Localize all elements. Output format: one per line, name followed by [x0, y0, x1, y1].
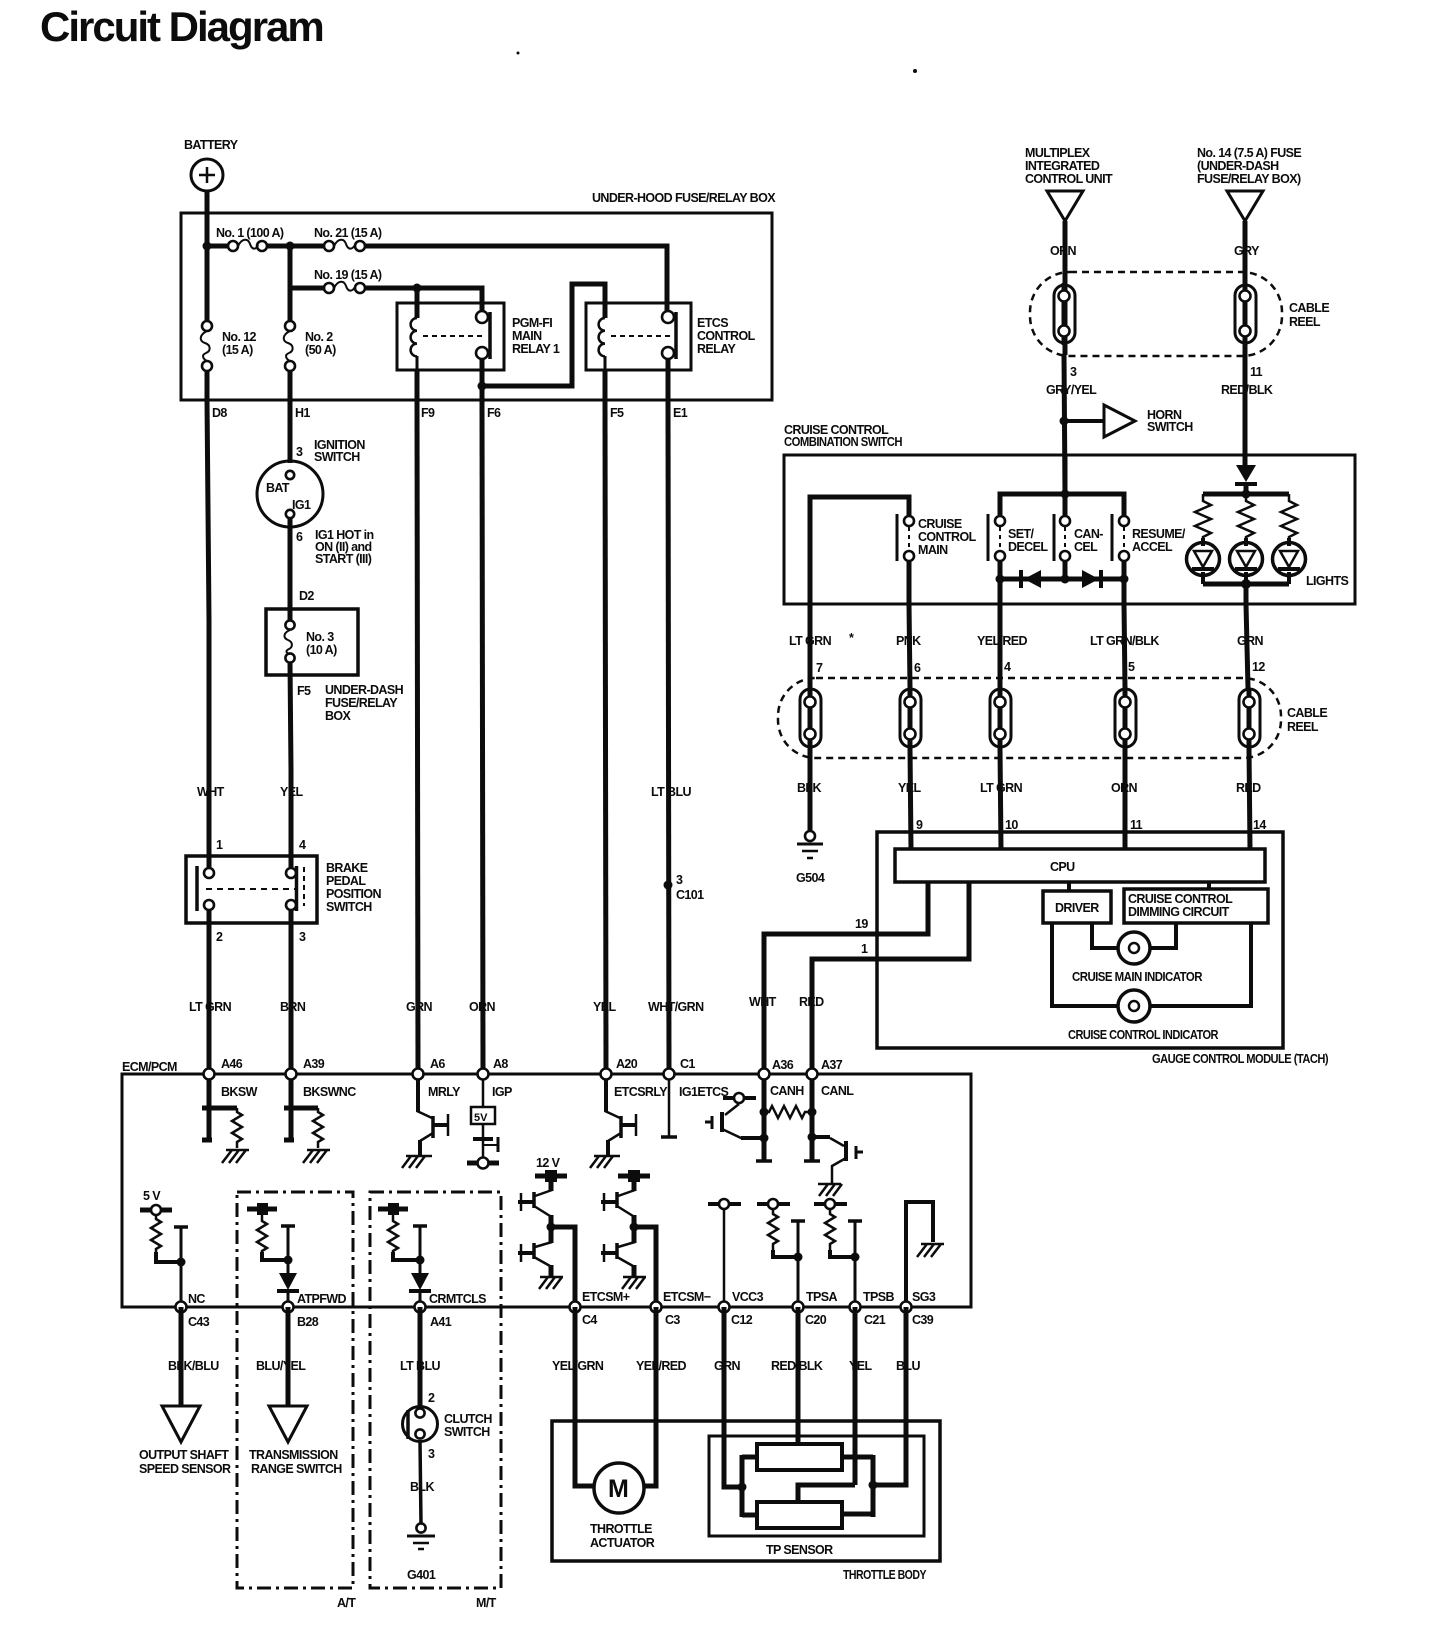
wire ORN seg: [1123, 748, 1128, 849]
lamp cruise control indicator: [1068, 990, 1219, 1042]
TP sensor element lower: [757, 1502, 842, 1528]
wire horn tap: [1064, 419, 1104, 423]
junction ATPFWD: [284, 1256, 293, 1265]
svg-text:C39: C39: [912, 1313, 934, 1327]
svg-text:CEL: CEL: [1074, 540, 1098, 554]
wire BLU: [873, 1307, 906, 1485]
svg-text:19: 19: [855, 917, 868, 931]
driver box: [1043, 891, 1111, 923]
driver pair ETCSM+: [518, 1178, 563, 1289]
ground BKSWNC: [303, 1150, 330, 1163]
fuse No.3 (10 A) under-dash: [266, 609, 358, 675]
junction bus left: [996, 575, 1005, 584]
VCC3 terminal: [708, 1199, 741, 1307]
svg-text:BOX: BOX: [325, 709, 352, 723]
svg-text:12 V: 12 V: [536, 1156, 561, 1170]
wire E1 contact out: [666, 358, 671, 400]
junction TPSA: [794, 1253, 803, 1262]
junction F6/ETCS feed: [478, 382, 487, 391]
svg-text:C1: C1: [680, 1057, 695, 1071]
transistor Q-ETCSRLY: [590, 1079, 637, 1168]
BKSWNC stub: [284, 1106, 318, 1111]
svg-text:CONTROL UNIT: CONTROL UNIT: [1025, 172, 1113, 186]
BOTTOM-SECTION: [139, 1307, 940, 1582]
ground G401: [407, 1523, 436, 1582]
reel connector left: [1054, 283, 1075, 345]
svg-text:FUSE/RELAY: FUSE/RELAY: [325, 696, 398, 710]
svg-text:GRY/YEL: GRY/YEL: [1046, 383, 1097, 397]
junction TPSB: [851, 1253, 860, 1262]
svg-text:Circuit Diagram: Circuit Diagram: [40, 3, 323, 50]
connector arrow multiplex: [1047, 191, 1083, 221]
svg-text:No. 1 (100 A): No. 1 (100 A): [216, 226, 284, 240]
svg-text:SET/: SET/: [1008, 527, 1035, 541]
cruise control combination switch box: [784, 455, 1355, 604]
TPSB sense line: [848, 1221, 862, 1307]
wire battery to bus: [205, 191, 210, 246]
svg-text:BAT: BAT: [266, 481, 290, 495]
resistor lamp mid: [1238, 494, 1254, 540]
svg-text:MRLY: MRLY: [428, 1085, 461, 1099]
svg-text:A/T: A/T: [337, 1596, 356, 1610]
wire LT BLU: [418, 1307, 423, 1408]
svg-text:YEL: YEL: [280, 785, 303, 799]
diode D2 (to resume): [1082, 570, 1101, 588]
stray speck: [913, 69, 917, 73]
TPSA terminal: [757, 1199, 790, 1209]
svg-text:CABLE: CABLE: [1287, 706, 1327, 720]
reel oval pin12: [1239, 689, 1260, 747]
svg-text:No. 14 (7.5 A) FUSE: No. 14 (7.5 A) FUSE: [1197, 146, 1301, 160]
svg-text:12: 12: [1252, 660, 1265, 674]
svg-text:NC: NC: [188, 1292, 205, 1306]
svg-text:PNK: PNK: [896, 634, 921, 648]
svg-text:BLU/YEL: BLU/YEL: [256, 1359, 306, 1373]
svg-text:SWITCH: SWITCH: [444, 1425, 490, 1439]
svg-text:IG1: IG1: [292, 498, 311, 512]
svg-text:POSITION: POSITION: [326, 887, 382, 901]
label multiplex integrated control unit: [1025, 146, 1113, 186]
reel oval pin6: [900, 689, 921, 747]
svg-text:DRIVER: DRIVER: [1055, 901, 1099, 915]
BKSWNC pulldown: wire: [284, 1079, 294, 1140]
svg-text:THROTTLE BODY: THROTTLE BODY: [843, 1568, 927, 1582]
svg-text:D2: D2: [299, 589, 314, 603]
svg-text:M: M: [608, 1475, 629, 1503]
svg-text:LT GRN/BLK: LT GRN/BLK: [1090, 634, 1159, 648]
junction CRMTCLS: [416, 1256, 425, 1265]
TPSA sense line: [791, 1221, 805, 1307]
svg-text:F5: F5: [297, 684, 311, 698]
TP right bus: [842, 1455, 873, 1517]
wire col3 GRN run: [417, 400, 418, 1074]
node C101: [664, 873, 705, 902]
svg-text:ATPFWD: ATPFWD: [297, 1292, 347, 1306]
diode D3 lights feed: [1235, 465, 1257, 484]
wire col2 to ignition: [288, 400, 293, 463]
svg-text:3: 3: [428, 1447, 435, 1461]
svg-text:UNDER-DASH: UNDER-DASH: [325, 683, 404, 697]
wire YEL/RED out: [998, 579, 1003, 604]
wire col2 in box: [288, 288, 293, 400]
wire diode bus: [1000, 561, 1124, 579]
wire control indicator to dimming: [1150, 923, 1251, 1006]
NC line: [174, 1227, 188, 1307]
lamp cruise main indicator: [1072, 932, 1203, 984]
svg-text:(UNDER-DASH: (UNDER-DASH: [1197, 159, 1279, 173]
wire TPSA join: [773, 1250, 798, 1257]
svg-text:C12: C12: [731, 1313, 753, 1327]
svg-text:PEDAL: PEDAL: [326, 874, 366, 888]
resistor R-BKSWNC: [313, 1108, 323, 1148]
connector C4: [570, 1290, 630, 1327]
svg-text:SWITCH: SWITCH: [326, 900, 372, 914]
wire pin19 WHT: [764, 882, 928, 1074]
junction bus right: [1120, 575, 1129, 584]
CRMTCLS 5V bar: [378, 1203, 408, 1215]
connector arrow output shaft speed sensor: [139, 1406, 231, 1476]
SG3 ground run: [906, 1202, 944, 1307]
resistor R-TPSA: [768, 1209, 778, 1250]
svg-text:M/T: M/T: [476, 1596, 497, 1610]
wire main indicator to dimming: [1150, 923, 1176, 948]
svg-text:LT BLU: LT BLU: [651, 785, 691, 799]
junction col2 bus: [286, 242, 295, 251]
wire YEL/RED seg: [998, 604, 1003, 688]
svg-text:TPSB: TPSB: [863, 1290, 895, 1304]
svg-text:YEL: YEL: [898, 781, 921, 795]
svg-text:SWITCH: SWITCH: [314, 450, 360, 464]
label cruise control combination switch: [784, 423, 903, 449]
svg-text:BLK/BLU: BLK/BLU: [168, 1359, 219, 1373]
supply bar ETCSM-: [618, 1170, 650, 1182]
svg-text:MULTIPLEX: MULTIPLEX: [1025, 146, 1091, 160]
svg-text:IGP: IGP: [492, 1085, 512, 1099]
svg-text:BLK: BLK: [797, 781, 821, 795]
svg-text:4: 4: [1004, 660, 1011, 674]
svg-text:PGM-FI: PGM-FI: [512, 316, 552, 330]
svg-text:A46: A46: [221, 1057, 243, 1071]
ground G504: [796, 831, 825, 885]
label No.14 fuse: [1197, 146, 1301, 186]
lamp left: [1187, 538, 1220, 584]
svg-text:CONTROL: CONTROL: [918, 530, 977, 544]
svg-text:TRANSMISSION: TRANSMISSION: [249, 1448, 338, 1462]
junction bus mid: [1061, 575, 1070, 584]
svg-text:ETCSM+: ETCSM+: [582, 1290, 630, 1304]
svg-text:5: 5: [1128, 660, 1135, 674]
svg-text:BKSW: BKSW: [221, 1085, 258, 1099]
svg-text:10: 10: [1005, 818, 1018, 832]
junction CANH/driver: [760, 1134, 769, 1143]
svg-text:RED/BLK: RED/BLK: [771, 1359, 823, 1373]
wire LT GRN/BLK out: [1122, 579, 1127, 604]
svg-text:LIGHTS: LIGHTS: [1306, 574, 1348, 588]
svg-text:7: 7: [816, 661, 823, 675]
junction GRN/left bar: [738, 1483, 747, 1492]
svg-text:VCC3: VCC3: [732, 1290, 764, 1304]
svg-text:No. 2: No. 2: [305, 330, 333, 344]
wire CPU to dimming: [1207, 882, 1211, 889]
TP sensor element upper: [757, 1444, 842, 1470]
svg-text:REEL: REEL: [1287, 720, 1319, 734]
TP left bus: [742, 1455, 757, 1517]
ignition switch SW1: [257, 438, 374, 566]
svg-text:3: 3: [296, 445, 303, 459]
connector A46: [204, 1057, 258, 1099]
connector C43: [176, 1292, 210, 1329]
svg-text:A6: A6: [430, 1057, 445, 1071]
svg-text:GRN: GRN: [406, 1000, 433, 1014]
brake pedal position switch SW2: [186, 838, 382, 944]
junction horn tap: [1060, 417, 1069, 426]
svg-text:F5: F5: [610, 406, 624, 420]
svg-text:BKSWNC: BKSWNC: [303, 1085, 356, 1099]
wire col1 WHT run: [207, 400, 209, 1074]
svg-text:BLK: BLK: [410, 1480, 434, 1494]
wire ORN: [1063, 221, 1068, 282]
wire GRY: [1243, 221, 1248, 282]
svg-text:LT GRN: LT GRN: [980, 781, 1023, 795]
svg-text:ORN: ORN: [469, 1000, 496, 1014]
wire RED/BLK: [796, 1307, 801, 1446]
svg-text:B28: B28: [297, 1315, 319, 1329]
svg-text:F6: F6: [487, 406, 501, 420]
svg-text:DIMMING CIRCUIT: DIMMING CIRCUIT: [1128, 905, 1230, 919]
BKSW pulldown: wire: [202, 1079, 212, 1140]
wire TPSB join: [830, 1250, 855, 1257]
ATPFWD 5V bar: [247, 1203, 277, 1215]
svg-text:CPU: CPU: [1050, 860, 1075, 874]
svg-text:(10 A): (10 A): [306, 643, 337, 657]
supply bar ETCSM+: [535, 1170, 567, 1182]
svg-text:UNDER-HOOD FUSE/RELAY BOX: UNDER-HOOD FUSE/RELAY BOX: [592, 191, 776, 205]
wire LT GRN seg: [808, 604, 813, 688]
svg-text:THROTTLE: THROTTLE: [590, 1522, 652, 1536]
wire F6 to ETCS coil: [482, 284, 605, 386]
junction ETCSM+: [547, 1223, 556, 1232]
svg-text:No. 19 (15 A): No. 19 (15 A): [314, 268, 382, 282]
svg-text:E1: E1: [673, 406, 688, 420]
diode D-ATPFWD: [277, 1226, 299, 1307]
lamp right: [1273, 538, 1306, 584]
motor M throttle actuator: [590, 1463, 655, 1550]
wire cruise main feed run: [810, 497, 909, 604]
wire CANH: [762, 1079, 767, 1160]
svg-text:RANGE SWITCH: RANGE SWITCH: [251, 1462, 342, 1476]
svg-text:A36: A36: [772, 1058, 794, 1072]
wire col6 WHT/GRN run: [668, 400, 669, 1074]
svg-text:BATTERY: BATTERY: [184, 138, 239, 152]
svg-text:3: 3: [299, 930, 306, 944]
fuse No.12 (15 A): [201, 321, 257, 371]
svg-text:ETCSM−: ETCSM−: [663, 1290, 711, 1304]
wire ORN through reel: [1063, 282, 1068, 355]
svg-text:MAIN: MAIN: [512, 329, 542, 343]
wire BLK clutch: [420, 1441, 421, 1524]
svg-text:COMBINATION SWITCH: COMBINATION SWITCH: [784, 435, 903, 449]
A/T dash-dot box: [237, 1192, 353, 1588]
wire feed run: [1000, 494, 1124, 516]
ground BKSW: [222, 1150, 249, 1163]
relay U2 ETCS control relay: [586, 303, 756, 370]
wire col2 YEL run: [290, 662, 291, 1074]
switch can-cel: [1054, 514, 1103, 561]
svg-text:9: 9: [916, 818, 923, 832]
wire YEL/RED: [644, 1307, 656, 1486]
connector A39: [286, 1057, 357, 1099]
svg-text:CRUISE CONTROL: CRUISE CONTROL: [1128, 892, 1233, 906]
svg-text:START (III): START (III): [315, 552, 372, 566]
switch set/decel: [988, 514, 1048, 561]
svg-text:YEL/RED: YEL/RED: [977, 634, 1028, 648]
battery B1: [184, 138, 239, 191]
svg-text:H1: H1: [295, 406, 310, 420]
wire driver to control indicator: [1052, 923, 1118, 1006]
svg-text:TP SENSOR: TP SENSOR: [766, 1543, 833, 1557]
svg-text:No. 12: No. 12: [222, 330, 257, 344]
wire GRN: [724, 1307, 742, 1487]
wire YEL seg: [910, 748, 911, 849]
svg-text:3: 3: [676, 873, 683, 887]
ECM-SECTION: [122, 1057, 971, 1610]
svg-text:OUTPUT SHAFT: OUTPUT SHAFT: [139, 1448, 229, 1462]
junction CANL/driver: [808, 1133, 817, 1142]
horn switch arrow: [1104, 405, 1193, 437]
svg-text:CANH: CANH: [770, 1084, 804, 1098]
connector arrow No.14 fuse: [1227, 191, 1263, 221]
svg-text:CRMTCLS: CRMTCLS: [429, 1292, 486, 1306]
wire YEL wiper: [798, 1307, 855, 1504]
svg-text:G504: G504: [796, 871, 825, 885]
resistor lamp left: [1195, 494, 1211, 540]
connector C39: [901, 1290, 936, 1327]
junction lights feed: [1242, 490, 1251, 499]
wire No.19 row: [290, 246, 482, 312]
junction BLU/right bar: [869, 1481, 878, 1490]
svg-text:ORN: ORN: [1111, 781, 1138, 795]
fuse No.2 (50 A): [284, 321, 336, 371]
cruise control dimming circuit box: [1124, 889, 1268, 923]
svg-text:LT GRN: LT GRN: [789, 634, 832, 648]
regulator IGP 5V: [467, 1079, 499, 1169]
wire ATPFWD join: [262, 1252, 288, 1260]
svg-text:CRUISE CONTROL INDICATOR: CRUISE CONTROL INDICATOR: [1068, 1028, 1219, 1042]
svg-text:CRUISE: CRUISE: [918, 517, 962, 531]
svg-text:CRUISE MAIN INDICATOR: CRUISE MAIN INDICATOR: [1072, 970, 1203, 984]
wire YEL/GRN: [575, 1307, 595, 1486]
svg-text:WHT/GRN: WHT/GRN: [648, 1000, 704, 1014]
wire GRY/YEL down: [1064, 355, 1065, 494]
svg-text:F9: F9: [421, 406, 435, 420]
wire LT GRN/BLK seg: [1124, 604, 1125, 688]
CANH terminator: [756, 1159, 772, 1163]
svg-text:CLUTCH: CLUTCH: [444, 1412, 492, 1426]
svg-text:GRN: GRN: [1237, 634, 1264, 648]
wire ETCSM+ out: [551, 1227, 575, 1307]
wire LT GRN seg: [1000, 748, 1001, 849]
connector C21: [850, 1290, 895, 1327]
svg-text:C20: C20: [805, 1313, 827, 1327]
CANL terminator: [804, 1159, 820, 1163]
junction battery bus: [203, 242, 212, 251]
fuse No.21 (15 A): [314, 226, 382, 251]
wire F6 contact out: [480, 358, 485, 400]
transistor Q-MRLY: [402, 1079, 449, 1168]
svg-text:C4: C4: [582, 1313, 597, 1327]
clutch switch SW3: [403, 1407, 493, 1442]
relay U1 PGM-FI main relay 1: [397, 303, 560, 370]
svg-text:A37: A37: [821, 1058, 843, 1072]
svg-text:BRN: BRN: [280, 1000, 306, 1014]
TPSB terminal: [814, 1199, 847, 1209]
reel oval pin4: [990, 689, 1011, 747]
svg-text:(15 A): (15 A): [222, 343, 253, 357]
junction CANH/resistor: [760, 1108, 769, 1117]
svg-text:G401: G401: [407, 1568, 436, 1582]
connector B28: [283, 1292, 347, 1329]
wire GRN out: [1244, 584, 1249, 604]
wire GRY/YEL into switch: [1063, 455, 1068, 516]
diode D-CRMTCLS: [409, 1226, 431, 1307]
wire ETCSM- out: [634, 1227, 656, 1307]
svg-text:4: 4: [299, 838, 306, 852]
svg-text:ETCSRLY: ETCSRLY: [614, 1085, 668, 1099]
svg-text:No. 3: No. 3: [306, 630, 334, 644]
wire CRMTCLS join: [393, 1252, 420, 1260]
svg-text:ACTUATOR: ACTUATOR: [590, 1536, 655, 1550]
svg-text:C101: C101: [676, 888, 704, 902]
BKSW stub: [202, 1106, 237, 1111]
switch cruise control main: [897, 514, 977, 561]
IG1ETCS stub: [661, 1079, 677, 1137]
svg-text:DECEL: DECEL: [1008, 540, 1048, 554]
svg-text:A8: A8: [493, 1057, 508, 1071]
svg-text:11: 11: [1130, 818, 1143, 832]
svg-text:GAUGE CONTROL MODULE (TACH): GAUGE CONTROL MODULE (TACH): [1152, 1052, 1328, 1066]
svg-text:YEL: YEL: [849, 1359, 872, 1373]
svg-text:C21: C21: [864, 1313, 886, 1327]
gauge control module box: [877, 832, 1328, 1066]
transistor Q-CANL: [812, 1137, 863, 1196]
throttle body box: [552, 1421, 940, 1582]
svg-text:D8: D8: [212, 406, 227, 420]
svg-text:LT BLU: LT BLU: [400, 1359, 440, 1373]
svg-text:YEL: YEL: [593, 1000, 616, 1014]
svg-text:RESUME/: RESUME/: [1132, 527, 1186, 541]
wire BLK/BLU: [179, 1307, 184, 1406]
svg-text:6: 6: [296, 530, 303, 544]
lamp mid: [1230, 538, 1263, 584]
svg-text:(50 A): (50 A): [305, 343, 336, 357]
fuse No.19 (15 A): [314, 268, 382, 293]
cable reel upper (dashed): [1030, 272, 1329, 356]
wire driver to main indicator: [1092, 923, 1118, 948]
svg-text:ORN: ORN: [1050, 244, 1077, 258]
svg-text:RED: RED: [1236, 781, 1261, 795]
svg-text:CANL: CANL: [821, 1084, 854, 1098]
svg-text:GRY: GRY: [1234, 244, 1260, 258]
wire GRN seg: [1246, 604, 1248, 688]
svg-text:ACCEL: ACCEL: [1132, 540, 1173, 554]
svg-text:TPSA: TPSA: [806, 1290, 838, 1304]
svg-text:GRN: GRN: [714, 1359, 741, 1373]
wire RED seg: [1249, 748, 1250, 849]
svg-text:CAN-: CAN-: [1074, 527, 1103, 541]
svg-text:RELAY 1: RELAY 1: [512, 342, 560, 356]
reel oval pin7: [800, 688, 821, 748]
connector C1: [664, 1057, 729, 1099]
